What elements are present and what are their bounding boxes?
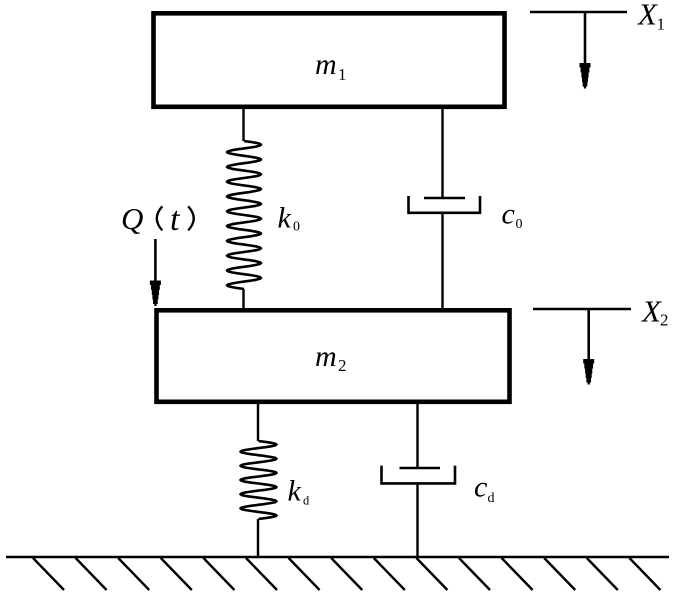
svg-text:X: X [636, 0, 658, 32]
svg-text:k: k [288, 475, 302, 508]
label X2 [640, 294, 669, 330]
wire damper c0 to m2 [441, 213, 443, 310]
svg-text:2: 2 [338, 356, 347, 375]
svg-text:0: 0 [293, 220, 300, 235]
ground hatching [33, 558, 660, 590]
mass m1 body [154, 13, 505, 107]
wire spring kd to ground [257, 519, 259, 556]
svg-text:0: 0 [516, 217, 523, 232]
X2 arrowhead [583, 359, 594, 385]
wire spring k0 to m2 [242, 289, 244, 310]
svg-text:2: 2 [660, 311, 669, 330]
wire m2 to damper cd [416, 402, 418, 468]
label m1 [315, 48, 347, 84]
svg-text:k: k [278, 202, 292, 235]
label cd [474, 471, 495, 507]
wire m1 to damper c0 [441, 107, 443, 198]
svg-text:c: c [502, 198, 515, 231]
X2 reference line [533, 308, 631, 311]
X2 arrow stem [587, 309, 590, 360]
label kd [288, 475, 311, 508]
damper c0 cylinder cup [409, 196, 481, 213]
label k0 [278, 202, 301, 235]
X1 arrowhead [580, 63, 591, 89]
svg-text:m: m [315, 340, 337, 373]
damper cd piston plate [400, 467, 441, 470]
wire m1 to spring k0 [242, 107, 244, 141]
damper cd cylinder cup [382, 466, 456, 484]
svg-text:d: d [303, 493, 310, 507]
label m2 [315, 340, 347, 375]
svg-text:t: t [170, 201, 181, 238]
X1 arrow stem [584, 12, 587, 64]
label Q(t) [121, 201, 194, 238]
wire damper cd to ground [416, 483, 418, 556]
svg-text:c: c [474, 471, 487, 504]
damper c0 piston plate [424, 197, 465, 200]
spring kd [241, 441, 277, 519]
label X1 [636, 0, 665, 34]
svg-text:1: 1 [657, 15, 666, 34]
label c0 [502, 198, 523, 233]
Q(t) arrowhead [150, 281, 161, 307]
svg-text:X: X [640, 294, 662, 329]
svg-text:m: m [315, 48, 337, 81]
Q(t) force arrow stem [154, 239, 157, 282]
ground line [6, 556, 669, 559]
svg-text:1: 1 [338, 65, 347, 84]
wire m2 to spring kd [257, 402, 259, 441]
spring k0 [227, 141, 261, 289]
svg-text:Q: Q [121, 201, 143, 236]
mass m2 body [157, 310, 510, 402]
svg-text:d: d [488, 491, 495, 506]
X1 reference line [530, 11, 627, 14]
